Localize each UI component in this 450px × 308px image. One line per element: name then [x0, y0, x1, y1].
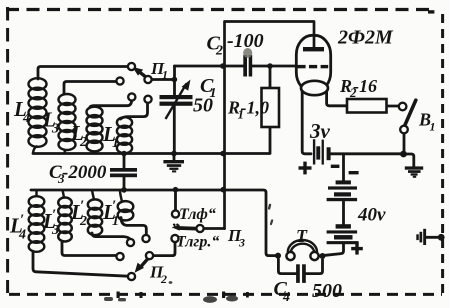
print smear above C2: [243, 48, 252, 58]
svg-text:4: 4: [22, 111, 30, 126]
wire: L1 top to П1 contact: [121, 103, 148, 119]
svg-text:40v: 40v: [357, 205, 386, 226]
coil L3: [59, 94, 76, 154]
battery 3v minus sign: [331, 165, 340, 168]
wire: 40v battery bottom to headphone node: [325, 244, 344, 255]
bottom frame irregular ticks: [117, 292, 249, 299]
switch П1 contact (L4): [128, 63, 135, 70]
svg-text:50: 50: [193, 95, 213, 117]
battery 40v minus sign: [349, 171, 359, 174]
svg-text:′: ′: [112, 198, 116, 214]
wire: L4' bottom to П2 contact: [33, 253, 128, 277]
wire: C4 left branch: [278, 259, 295, 274]
node: anode column x secondary bus: [220, 187, 226, 193]
svg-text:2: 2: [79, 135, 87, 150]
wire: C3 bottom lead to secondary bus: [123, 177, 126, 190]
svg-text:-16: -16: [353, 76, 377, 96]
battery 40v lower cells: [327, 224, 359, 244]
node: C1 ground on bus: [171, 151, 177, 157]
print smudges below bottom frame: [104, 281, 238, 303]
coil L4: [29, 78, 47, 153]
switch П3 pivot: [196, 225, 203, 232]
wire: L3 top to П1 contact: [64, 82, 116, 95]
svg-text:2: 2: [79, 214, 87, 229]
svg-text:Тлф“: Тлф“: [179, 206, 216, 223]
wire: B1 lower lead: [403, 134, 406, 151]
wire: anode top feed (x=224.5 vertical, top run, anode lead): [225, 22, 315, 229]
wire: grid wire left of C2: [175, 65, 244, 68]
node on right frame: [438, 234, 445, 241]
wire: right chassis stub: [425, 236, 441, 239]
label L2: [70, 121, 87, 150]
svg-text:2Ф2М: 2Ф2М: [337, 27, 394, 49]
svg-text:3: 3: [238, 236, 245, 250]
wire: C1 top lead: [173, 80, 176, 96]
switch П1 contact (L3): [116, 77, 123, 84]
switch П1 contact (L1): [144, 96, 151, 103]
svg-text:-100: -100: [227, 30, 264, 52]
label R1-1,0: [227, 98, 269, 122]
switch П3 blade: [172, 225, 197, 231]
resistor R1: [262, 88, 280, 127]
label C2 -100: [207, 30, 264, 59]
switch П2 blade with arrow: [135, 259, 148, 273]
headphones T left terminal: [286, 252, 294, 260]
svg-text:Тлгр.“: Тлгр.“: [176, 234, 219, 251]
svg-text:2: 2: [215, 44, 223, 59]
switch B1 upper contact: [399, 103, 407, 111]
wire: filament left lead to 3v battery: [302, 91, 311, 154]
node: anode column x ground bus: [220, 151, 226, 157]
label L3': [42, 207, 59, 238]
label Тлф: [173, 206, 216, 230]
wire: L2 top to П1 contact: [90, 101, 132, 107]
label L3: [42, 108, 59, 137]
label B1: [418, 110, 436, 134]
label L2': [70, 198, 87, 229]
node: R1 top: [267, 63, 273, 69]
switch П2 contact (L1'): [142, 235, 149, 242]
label C1 50: [193, 75, 217, 117]
node: C3 top on ground bus: [121, 151, 127, 157]
wire: Тлф contact lead: [174, 190, 177, 211]
svg-text:3: 3: [51, 122, 59, 137]
chassis dashed frame bottom: [9, 293, 442, 296]
svg-text:500: 500: [312, 280, 342, 302]
ground symbol near B1: [405, 166, 423, 177]
node: headphone right: [320, 253, 326, 259]
node: Тлф lead on secondary bus: [173, 187, 179, 193]
label П3: [227, 226, 245, 250]
tiny print specks near headphone drop: [268, 203, 274, 225]
svg-text:1: 1: [162, 68, 168, 82]
wire: C4 right branch: [306, 260, 323, 274]
coil L2: [87, 107, 103, 154]
vacuum tube anode plate: [303, 47, 324, 51]
switch П2 pivot: [146, 252, 153, 259]
capacitor C2 plates: [243, 55, 252, 77]
switch П1 pivot: [144, 76, 151, 83]
label L4: [13, 97, 30, 126]
vacuum tube grid (dashed): [297, 65, 328, 68]
switch П2 contact (L3'): [116, 253, 123, 260]
wire: secondary bus (lower coil tops) with drop to headphones: [31, 190, 276, 256]
switch П1 contact (L2): [128, 93, 135, 100]
battery 3v plus sign: [299, 162, 312, 175]
contact Тлф: [172, 210, 179, 217]
svg-text:1: 1: [430, 120, 436, 134]
svg-text:„: „: [173, 213, 181, 230]
svg-text:4: 4: [282, 290, 290, 305]
variable capacitor C1 arrow: [166, 80, 191, 120]
node: B1 to ground junction: [400, 151, 407, 158]
node: C3 bottom on secondary bus: [121, 187, 127, 193]
svg-text:Т: Т: [296, 226, 308, 246]
switch П1 blade with arrow: [132, 67, 147, 78]
svg-text:1: 1: [112, 214, 119, 229]
switch B1 lower contact: [400, 126, 408, 134]
switch П2 contact (L2'): [127, 239, 134, 246]
wire: C3 top lead from ground bus: [123, 154, 126, 169]
node: П1 pivot / C1 top: [172, 77, 178, 83]
wire: 40v battery top feed: [342, 154, 345, 181]
coil L3': [58, 190, 72, 243]
wire: L1' bottom to П2 contact: [121, 218, 146, 235]
svg-text:4: 4: [18, 228, 26, 243]
chassis dashed frame left: [6, 7, 9, 293]
label C3 -2000: [49, 162, 107, 186]
wire: R1 top lead: [269, 66, 272, 88]
svg-text:1: 1: [112, 136, 119, 151]
battery 3v cells: [313, 139, 331, 164]
svg-text:-1,0: -1,0: [241, 98, 270, 118]
wire: 40v battery middle link: [342, 201, 345, 224]
vacuum tube 2Ф2М envelope: [296, 35, 330, 91]
capacitor C4 plates: [296, 264, 306, 283]
battery 40v plus sign: [351, 243, 363, 255]
wire: L2' bottom to П2 contact: [92, 233, 130, 239]
wire: filament right lead to R2: [327, 91, 347, 106]
svg-text:-2000: -2000: [62, 162, 107, 183]
coil L1': [118, 190, 134, 220]
label L4': [9, 212, 26, 243]
svg-text:′: ′: [80, 198, 84, 214]
label П2: [149, 263, 167, 287]
label C4 500: [274, 278, 343, 305]
capacitor C3 plates: [110, 168, 137, 177]
chassis dashed frame right: [441, 14, 444, 297]
headphones T arcs: [288, 240, 317, 252]
right chassis ground bars: [416, 229, 426, 245]
node: anode column x grid wire: [220, 63, 226, 69]
wire: Тлгр contact lead down and left to П2 pivot: [153, 242, 175, 256]
label R2-16: [339, 76, 377, 100]
wire: C1 ground stub: [173, 155, 176, 160]
variable capacitor C1 plates: [160, 95, 193, 106]
resistor R2: [347, 99, 387, 113]
wire: ground bus (upper coil bottoms) rising to R1 bottom: [33, 127, 270, 154]
wire: П3 pivot feed from anode column: [204, 227, 225, 230]
headphones T right terminal: [310, 252, 318, 260]
coil L2': [88, 190, 102, 235]
wire: battery bus 3v to B1 node: [331, 152, 404, 155]
wire: П1 pivot to C1 node with jog up to grid wire: [152, 66, 175, 80]
contact Тлгр: [171, 235, 178, 242]
battery 40v upper cells: [327, 180, 358, 201]
label L1': [102, 198, 119, 229]
wire: L4 top to П1 contact: [38, 67, 128, 80]
wire: L3' bottom to П2 contact: [62, 243, 116, 256]
ground symbol below C1: [163, 160, 184, 172]
switch П2 contact (L4'): [128, 273, 135, 280]
node: headphone left: [275, 253, 281, 259]
wire: B1 node to ground: [404, 154, 414, 166]
svg-text:′: ′: [52, 207, 56, 223]
svg-text:′: ′: [20, 212, 24, 228]
wire: headphone right terminal to node: [319, 254, 323, 257]
svg-text:3v: 3v: [309, 119, 331, 143]
wire: C1 bottom lead to ground bus: [173, 106, 176, 154]
chassis dashed frame top: [6, 8, 436, 11]
wire: R2 right lead: [387, 105, 399, 108]
coil L1: [117, 117, 132, 153]
svg-text:2: 2: [160, 272, 167, 286]
label L1: [102, 122, 119, 151]
vacuum tube filament: [301, 81, 328, 95]
wire: grid wire right of C2 to tube: [252, 65, 296, 68]
coil L4': [29, 190, 45, 253]
svg-text:3: 3: [51, 223, 59, 238]
switch B1 blade: [405, 100, 416, 126]
label П1: [150, 59, 168, 82]
